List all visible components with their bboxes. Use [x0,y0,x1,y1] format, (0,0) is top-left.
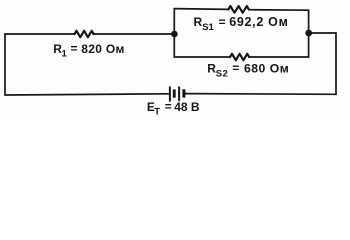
wire: left vertical (battery + to R1 row) [4,34,6,95]
wire: bottom left horizontal (battery to left corner) [5,94,168,95]
wire: box left vertical (node A to both branches) [173,9,175,57]
label RS2 designator [207,61,228,79]
svg-text:S1: S1 [202,22,214,33]
wire: bottom branch right segment [249,56,309,58]
wire: box right vertical [308,10,310,57]
resistor RS1 [228,6,248,13]
battery ET plate: short thick (cell 2) [182,89,185,97]
svg-text:T: T [154,107,160,118]
svg-text:=: = [71,42,78,56]
svg-text:=: = [219,15,226,29]
node A (left junction, dot) [171,31,178,38]
label ET designator [147,100,160,118]
battery ET plate: short thick (cell 1) [173,89,176,97]
svg-text:=: = [165,100,172,114]
wire: bottom branch left segment [174,56,230,58]
label R1 value: = 820 Ом [71,42,125,56]
wire: middle horizontal from left corner to R1 [5,33,75,35]
wire: top branch right segment [249,9,309,12]
wire: bottom right horizontal (right corner to battery) [186,93,337,96]
wire: outer right vertical [335,33,337,94]
svg-text:692,2 Ом: 692,2 Ом [229,15,288,29]
svg-text:48 В: 48 В [174,100,200,114]
resistor R1 [75,31,94,37]
label R1 designator [53,42,67,60]
battery ET plate: long (cell 2) [178,87,180,100]
svg-text:680 Ом: 680 Ом [244,61,289,75]
svg-text:820 Ом: 820 Ом [81,42,124,56]
label RS1 value: = 692,2 Ом [219,15,289,29]
resistor RS2 [230,54,249,60]
label RS1 designator [194,15,215,33]
svg-text:=: = [232,61,239,75]
node B (right junction, dot) [305,30,312,37]
wire: top branch left segment [174,8,228,11]
label RS2 value: = 680 Ом [232,61,289,75]
svg-text:1: 1 [62,49,68,60]
wire: R1 to node A [93,33,174,35]
battery ET plate: long (cell 1) [169,87,171,100]
svg-text:S2: S2 [216,68,228,79]
svg-text:R: R [194,15,203,29]
wire: node B to outer right vertical [309,32,336,34]
label ET value: = 48 В [165,100,200,114]
